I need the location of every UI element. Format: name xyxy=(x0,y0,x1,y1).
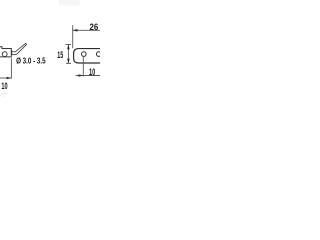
faint smudge bottom-left xyxy=(1,93,8,95)
lever arm xyxy=(12,43,27,54)
right 10 dim: arrow xyxy=(79,74,84,77)
plan right hole xyxy=(96,52,101,57)
15 dim: top arrow xyxy=(67,45,70,50)
svg-text:10: 10 xyxy=(89,67,95,77)
left 10 dim: dimension line xyxy=(0,77,11,79)
26 dim: dimension line xyxy=(73,29,100,31)
plan left hole xyxy=(82,52,87,57)
15 dim: bottom arrow xyxy=(67,59,70,64)
svg-text:15: 15 xyxy=(57,50,63,60)
side view body xyxy=(0,47,11,57)
svg-text:26: 26 xyxy=(90,22,99,32)
26 dim: extension line xyxy=(72,25,74,48)
svg-text:10: 10 xyxy=(1,81,7,92)
15 dim: dimension line xyxy=(67,44,69,63)
hole circle side view xyxy=(2,52,7,57)
plan view stadium xyxy=(74,49,102,63)
15 dim: bottom tick xyxy=(66,62,71,64)
left 10 dim: extension line xyxy=(10,58,12,78)
left 10 dim: arrow xyxy=(7,77,12,80)
26 dim: arrow xyxy=(73,29,78,32)
faint band top (remnant of row above) xyxy=(59,0,80,6)
15 dim: top tick xyxy=(66,43,72,45)
right 10 dim: extension line xyxy=(82,57,84,77)
right 10 dim: dimension line xyxy=(76,75,100,77)
svg-text:Ø 3.0 - 3.5: Ø 3.0 - 3.5 xyxy=(16,56,46,65)
